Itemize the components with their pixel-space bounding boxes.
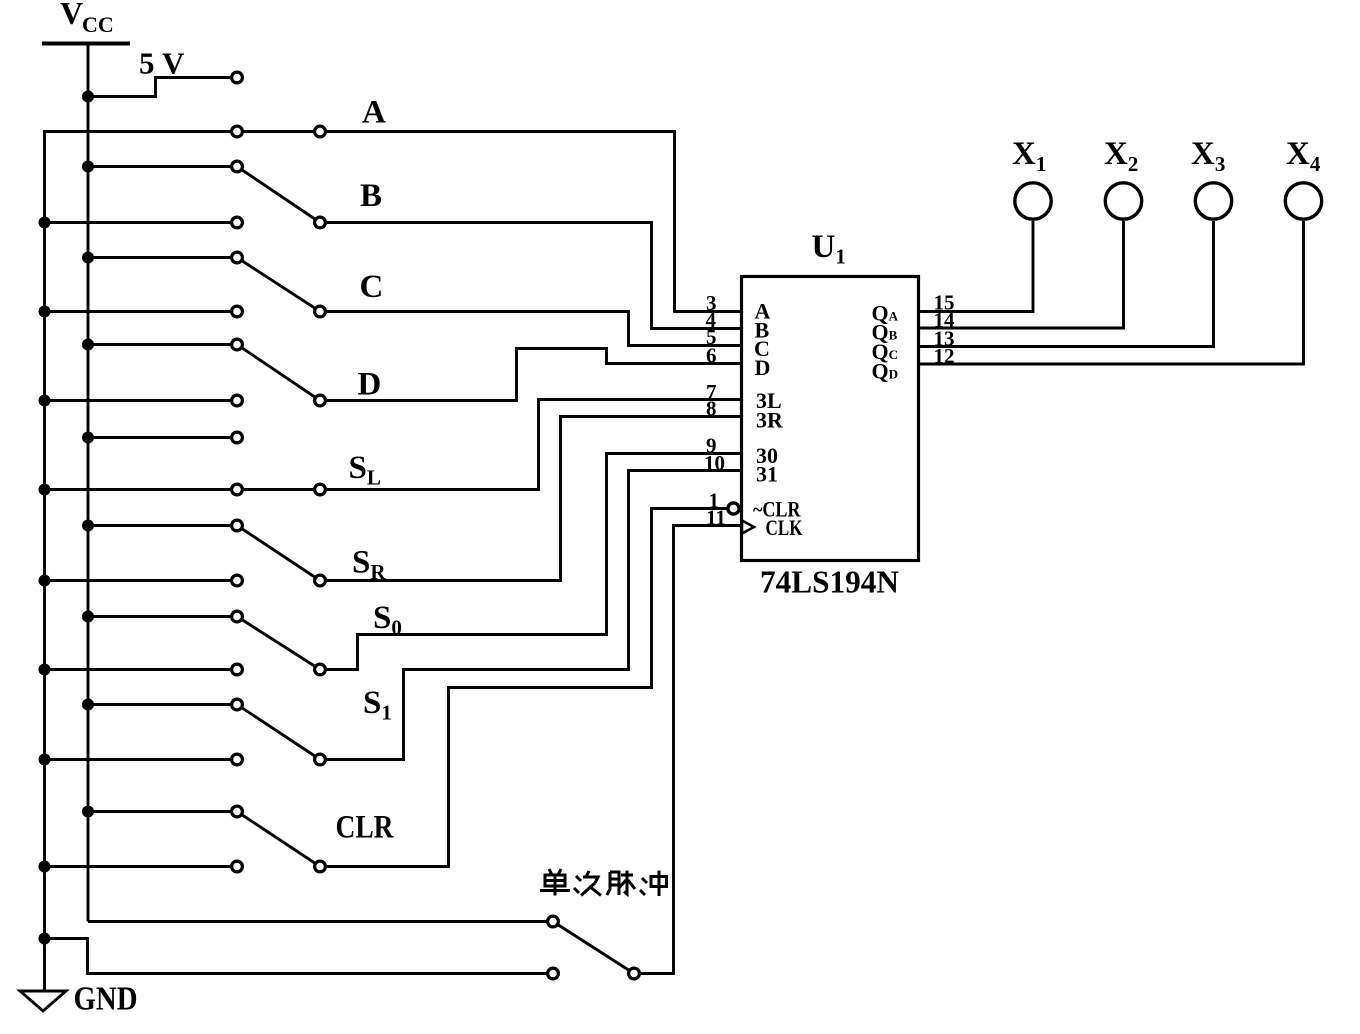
- svg-text:8: 8: [706, 397, 717, 421]
- switch S1 lower contact terminal: [232, 754, 243, 765]
- wire switch CLR lower contact feed: [43, 865, 237, 868]
- switch D pole terminal: [315, 395, 326, 406]
- glyph 单: [540, 869, 570, 896]
- svg-text:S0: S0: [373, 600, 402, 640]
- svg-text:X2: X2: [1104, 136, 1138, 176]
- svg-text:C: C: [360, 269, 384, 305]
- junction GND rail / SR lower: [39, 575, 51, 587]
- svg-text:A: A: [362, 95, 386, 131]
- switch A pole terminal: [315, 126, 326, 137]
- lamp X3: [1195, 183, 1231, 219]
- junction VCC rail / CLR upper: [82, 806, 94, 818]
- junction GND rail / C lower: [39, 306, 51, 318]
- switch CLR pole terminal: [315, 861, 326, 872]
- switch SR pole terminal: [315, 575, 326, 586]
- wire switch S1 lower contact feed: [43, 758, 237, 761]
- wire switch C upper contact feed: [88, 256, 237, 259]
- switch B pole terminal: [315, 217, 326, 228]
- switch SR lower contact terminal: [232, 575, 243, 586]
- svg-text:CLK: CLK: [766, 515, 803, 540]
- switch C pole terminal: [315, 306, 326, 317]
- wire switch CLR upper contact feed: [88, 810, 237, 813]
- wire switch S1 upper contact feed: [88, 703, 237, 706]
- svg-text:B: B: [360, 178, 382, 214]
- wire signal CLR from pole to chip pin 1 bubble: [320, 509, 727, 867]
- wire signal S0 from pole to chip pin 9: [320, 454, 741, 670]
- wire CLK signal from pulse pole to chip pin 11: [634, 526, 741, 974]
- junction VCC rail / D upper: [82, 339, 94, 351]
- svg-text:X3: X3: [1191, 136, 1225, 176]
- wire switch D upper contact feed: [88, 343, 237, 346]
- wire signal SL from pole to chip pin 7: [320, 400, 741, 490]
- clock input triangle at pin 11: [742, 521, 754, 534]
- svg-text:QD: QD: [872, 359, 899, 384]
- switch S0 pole terminal: [315, 664, 326, 675]
- ground symbol triangle: [20, 991, 66, 1011]
- switch B lever: [237, 167, 320, 223]
- svg-text:VCC: VCC: [60, 0, 114, 37]
- switch CLR upper contact terminal: [232, 806, 243, 817]
- switch C lower contact terminal: [232, 306, 243, 317]
- junction GND rail / S1 lower: [39, 754, 51, 766]
- svg-text:U1: U1: [812, 229, 846, 269]
- junction GND rail / S0 lower: [39, 664, 51, 676]
- svg-text:CLR: CLR: [336, 810, 395, 846]
- inversion bubble at pin 1 ~CLR: [728, 503, 739, 514]
- wire switch SR lower contact feed: [43, 579, 237, 582]
- wire output QB pin 14 to lamp X2: [918, 221, 1124, 328]
- svg-text:12: 12: [934, 344, 955, 368]
- switch C lever: [237, 258, 320, 312]
- IC U1 body rectangle 74LS194N: [742, 277, 919, 561]
- switch D upper contact terminal: [232, 339, 243, 350]
- junction GND rail / SL lower: [39, 484, 51, 496]
- wire VCC rail vertical: [87, 43, 90, 922]
- switch B lower contact terminal: [232, 217, 243, 228]
- wire 5V feed step from VCC rail to switch A upper contact: [88, 78, 237, 97]
- junction GND rail / D lower: [39, 395, 51, 407]
- wire signal D from pole to chip pin 6: [320, 349, 741, 401]
- svg-text:S1: S1: [363, 685, 392, 725]
- label 单次脉冲 (single pulse) drawn as strokes: [540, 869, 667, 896]
- pulse switch upper contact terminal: [548, 916, 559, 927]
- switch CLR lever: [237, 812, 320, 867]
- wire signal B from pole to chip pin 4: [320, 223, 741, 329]
- switch B upper contact terminal: [232, 161, 243, 172]
- wire switch B upper contact feed: [88, 165, 237, 168]
- wire switch SR upper contact feed: [88, 524, 237, 527]
- switch D lever: [237, 345, 320, 401]
- switch A lower contact terminal: [232, 126, 243, 137]
- svg-text:31: 31: [756, 462, 778, 487]
- junction VCC rail / S1 upper: [82, 699, 94, 711]
- wire left GND rail vertical: [43, 132, 46, 992]
- wire switch SL lower row and lever (straight through): [43, 488, 320, 491]
- switch SL pole terminal: [315, 484, 326, 495]
- svg-text:3R: 3R: [756, 408, 784, 433]
- wire switch D lower contact feed: [43, 399, 237, 402]
- junction GND rail / CLR lower: [39, 861, 51, 873]
- svg-text:GND: GND: [74, 981, 138, 1018]
- wire output QC pin 13 to lamp X3: [918, 221, 1214, 347]
- svg-text:5V: 5V: [139, 46, 185, 81]
- junction GND rail / B lower: [39, 217, 51, 229]
- lamp X2: [1105, 183, 1141, 219]
- pulse switch lever: [553, 922, 634, 974]
- wire signal A from pole to chip pin 3: [320, 132, 741, 312]
- lamp X4: [1285, 183, 1321, 219]
- switch SR upper contact terminal: [232, 520, 243, 531]
- switch S0 upper contact terminal: [232, 611, 243, 622]
- junction VCC rail / S0 upper: [82, 611, 94, 623]
- switch SL upper contact terminal: [232, 432, 243, 443]
- switch S1 pole terminal: [315, 754, 326, 765]
- svg-text:D: D: [755, 355, 771, 380]
- junction GND rail / pulse lower feed: [39, 933, 51, 945]
- switch S1 upper contact terminal: [232, 699, 243, 710]
- power symbol VCC bar: [42, 42, 130, 46]
- switch S0 lower contact terminal: [232, 664, 243, 675]
- switch SL lower contact terminal: [232, 484, 243, 495]
- wire switch S0 upper contact feed: [88, 615, 237, 618]
- glyph 次: [574, 871, 601, 896]
- lamp X1: [1015, 183, 1051, 219]
- pulse switch pole terminal: [629, 968, 640, 979]
- switch A upper contact terminal: [232, 72, 243, 83]
- switch CLR lower contact terminal: [232, 861, 243, 872]
- junction VCC rail / B upper: [82, 161, 94, 173]
- svg-text:6: 6: [706, 344, 717, 368]
- svg-text:X4: X4: [1286, 136, 1321, 176]
- wire signal SR from pole to chip pin 8: [320, 417, 741, 581]
- svg-text:SL: SL: [349, 450, 381, 490]
- wire signal C from pole to chip pin 5: [320, 312, 741, 346]
- switch C upper contact terminal: [232, 252, 243, 263]
- wire switch C lower contact feed: [43, 310, 237, 313]
- junction VCC rail / C upper: [82, 252, 94, 264]
- switch S0 lever: [237, 617, 320, 670]
- wire pulse switch upper contact feed from VCC rail: [88, 920, 553, 923]
- glyph 冲: [640, 871, 667, 897]
- svg-text:X1: X1: [1012, 136, 1046, 176]
- svg-text:10: 10: [704, 451, 725, 475]
- switch S1 lever: [237, 705, 320, 760]
- switch D lower contact terminal: [232, 395, 243, 406]
- svg-text:11: 11: [706, 506, 726, 530]
- svg-text:SR: SR: [352, 545, 386, 585]
- junction VCC rail / SL upper: [82, 432, 94, 444]
- wire switch A lower row and lever (straight through): [43, 130, 320, 133]
- junction VCC rail / 5V feed: [82, 91, 94, 103]
- svg-text:74LS194N: 74LS194N: [760, 564, 899, 600]
- wire output QA pin 15 to lamp X1: [918, 221, 1033, 312]
- svg-text:D: D: [358, 367, 382, 403]
- wire pulse switch lower contact feed from GND rail: [43, 939, 553, 974]
- switch SR lever: [237, 526, 320, 581]
- glyph 脉: [607, 871, 635, 896]
- pulse switch lower contact terminal: [548, 968, 559, 979]
- wire switch S0 lower contact feed: [43, 668, 237, 671]
- wire output QD pin 12 to lamp X4: [918, 221, 1304, 364]
- junction VCC rail / SR upper: [82, 520, 94, 532]
- wire switch SL upper contact feed: [88, 436, 237, 439]
- wire signal S1 from pole to chip pin 10: [320, 471, 741, 760]
- wire switch B lower contact feed: [43, 221, 237, 224]
